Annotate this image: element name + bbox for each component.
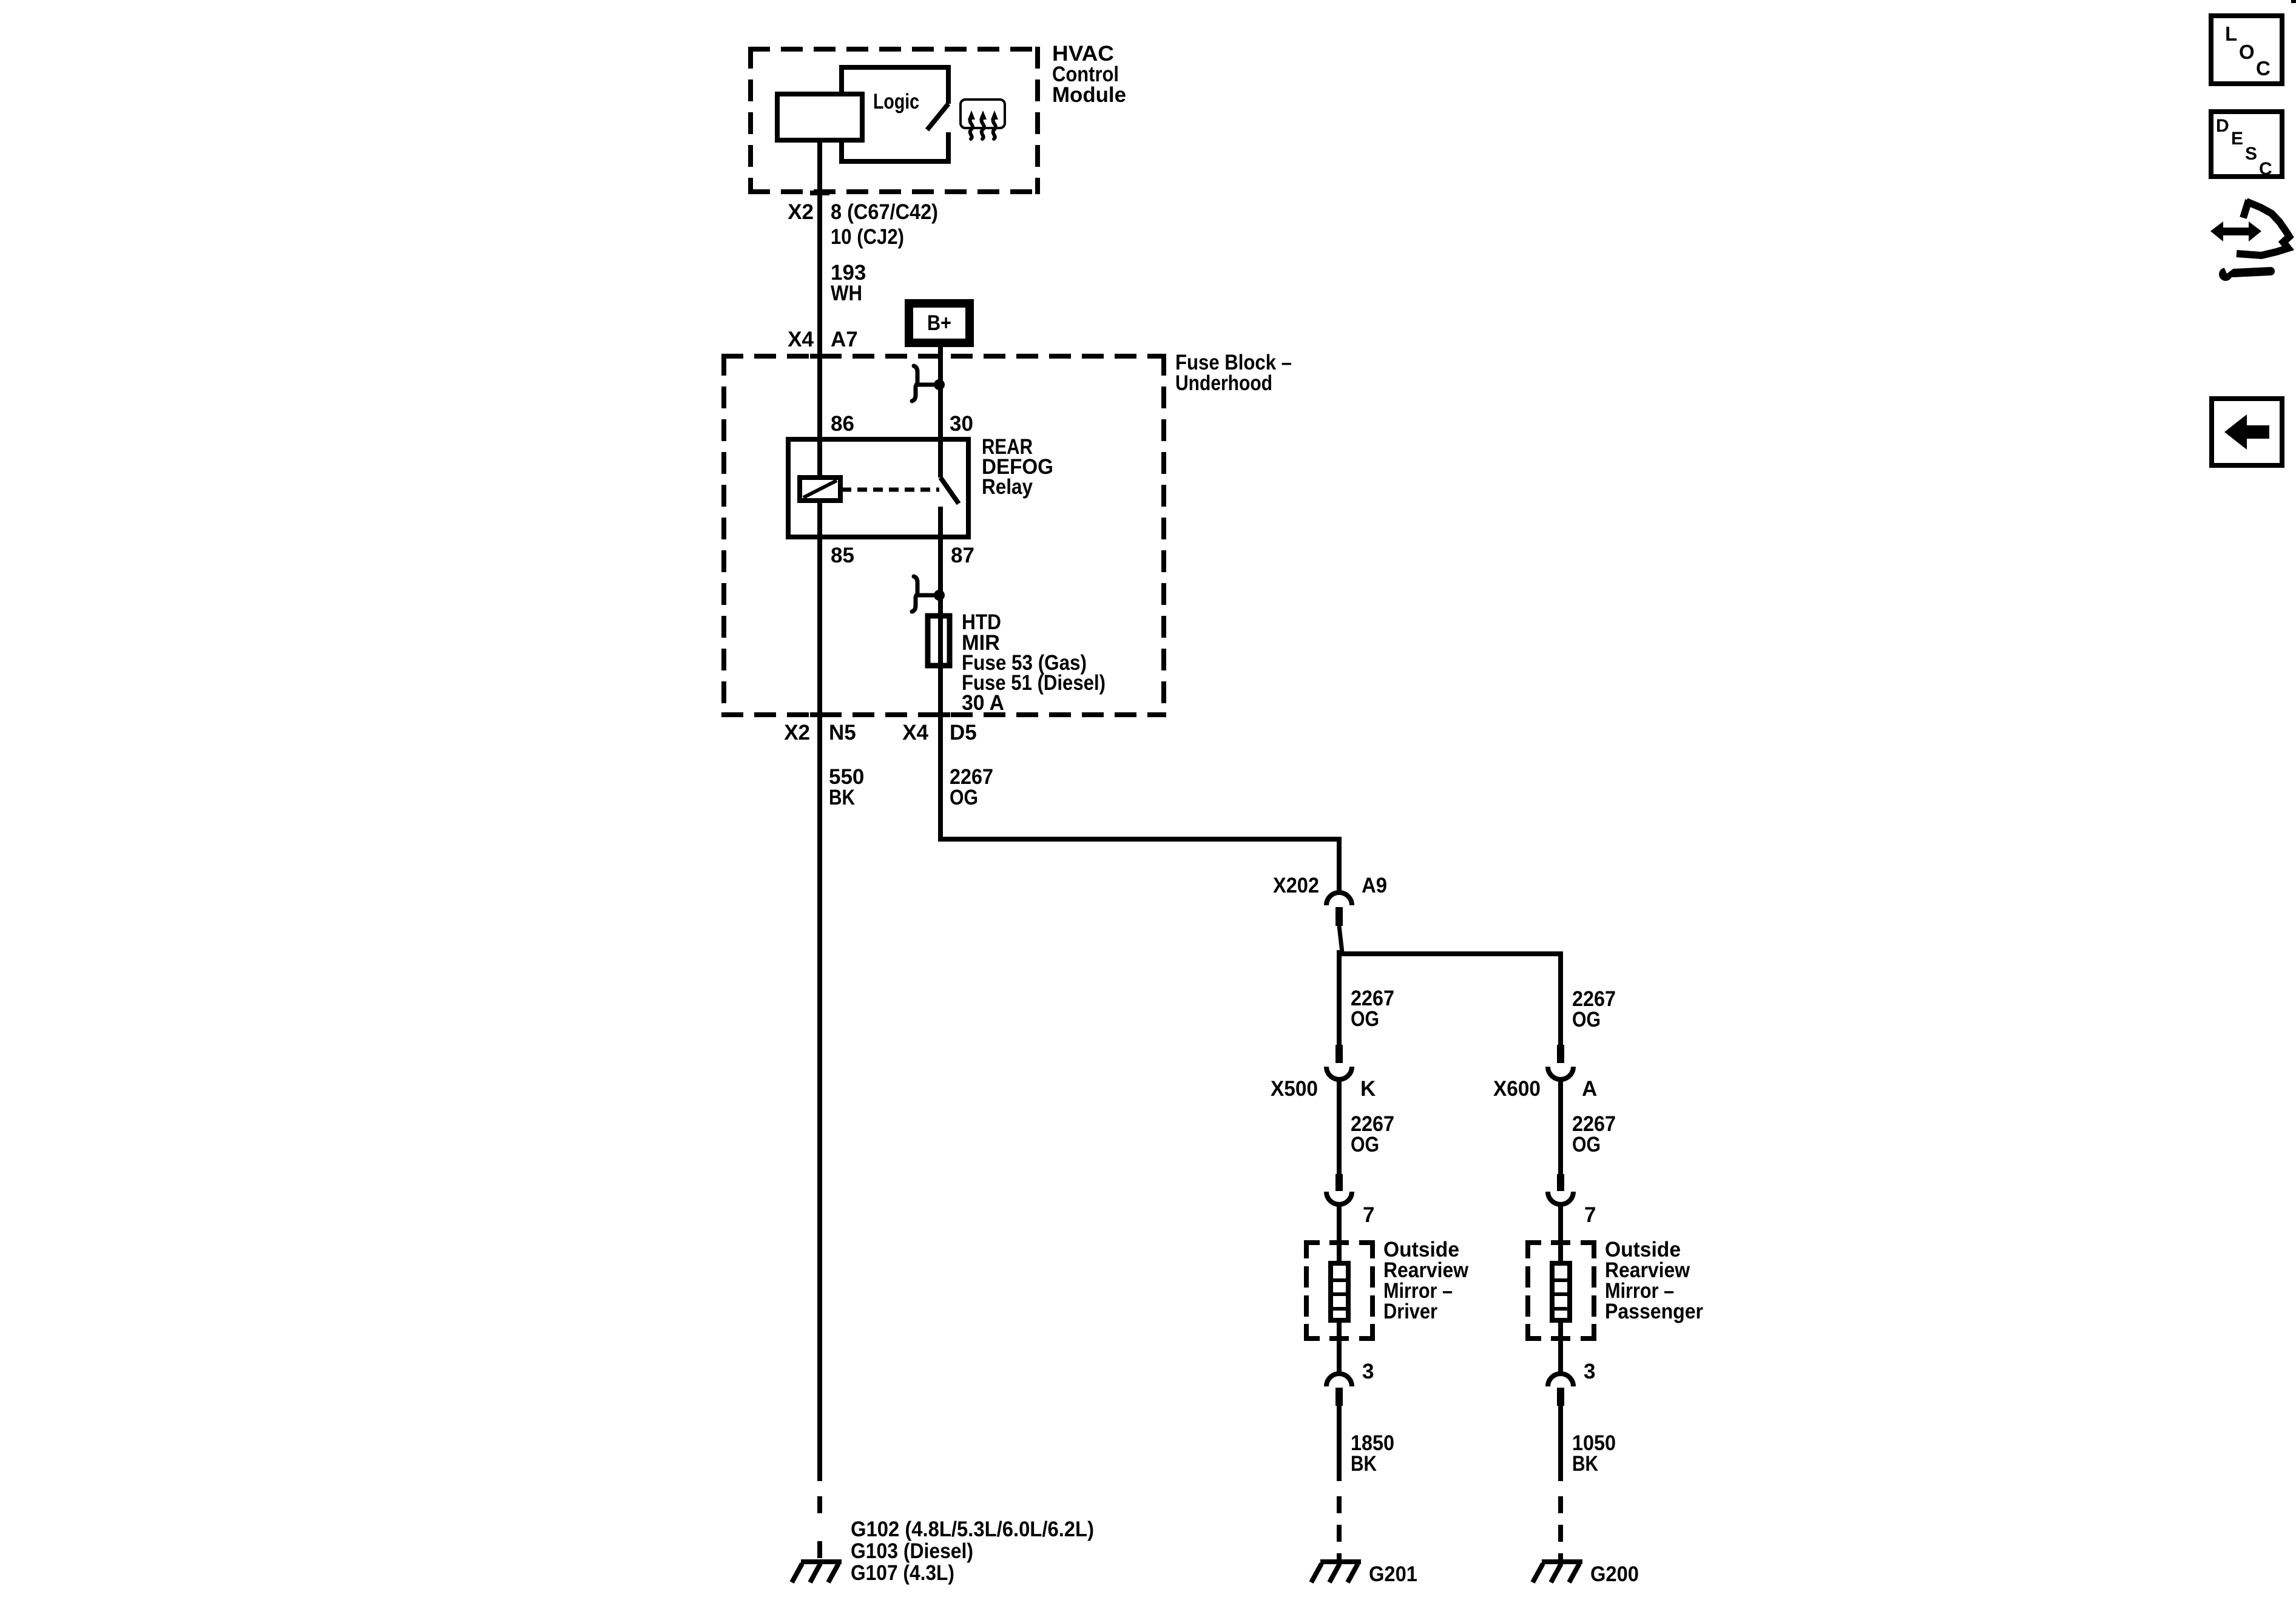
svg-text:C: C xyxy=(2259,159,2272,179)
svg-text:Underhood: Underhood xyxy=(1175,371,1272,395)
REAR DEFOG Relay box xyxy=(788,439,968,537)
ground G201 xyxy=(1311,1562,1361,1582)
wire label 193 WH xyxy=(831,261,866,305)
svg-text:D: D xyxy=(2216,116,2229,136)
svg-text:X500: X500 xyxy=(1271,1077,1318,1101)
svg-text:8 (C67/C42): 8 (C67/C42) xyxy=(831,200,938,224)
Fuse Block - Underhood dashed box xyxy=(721,354,1166,717)
wire passenger X600 to mirror xyxy=(1558,1079,1563,1174)
svg-text:A9: A9 xyxy=(1362,874,1387,897)
connector below driver mirror xyxy=(1326,1374,1352,1481)
tick at module boundary xyxy=(810,191,829,195)
svg-text:X600: X600 xyxy=(1493,1077,1541,1101)
relay coil xyxy=(800,478,840,501)
connector pin rect in module xyxy=(777,94,862,140)
svg-text:L: L xyxy=(2225,22,2237,45)
svg-text:BK: BK xyxy=(1351,1452,1377,1476)
tick at driver mirror bottom xyxy=(1329,1336,1349,1341)
fuse labels xyxy=(962,610,1106,715)
pin label X4 A7 xyxy=(788,328,858,351)
svg-text:G201: G201 xyxy=(1369,1562,1417,1586)
svg-text:OG: OG xyxy=(1351,1133,1379,1156)
ground labels G102 G103 G107 xyxy=(851,1517,1094,1585)
connector X600 A xyxy=(1493,1045,1597,1101)
svg-text:30 A: 30 A xyxy=(962,691,1004,715)
svg-text:WH: WH xyxy=(831,282,862,305)
svg-text:G103 (Diesel): G103 (Diesel) xyxy=(851,1539,973,1563)
svg-text:K: K xyxy=(1360,1077,1376,1101)
svg-text:A7: A7 xyxy=(831,328,858,351)
remove-install icon double arrow xyxy=(2210,221,2261,241)
connector X500 K xyxy=(1271,1045,1376,1101)
wire passenger mirror to connector xyxy=(1558,1320,1563,1374)
svg-text:X4: X4 xyxy=(902,721,928,744)
svg-text:Relay: Relay xyxy=(982,475,1033,499)
wire driver X500 to mirror xyxy=(1337,1079,1342,1174)
wire left main vertical xyxy=(817,140,822,1481)
page corner mark xyxy=(2291,0,2296,3)
connector below passenger mirror xyxy=(1548,1374,1573,1481)
svg-text:A: A xyxy=(1582,1077,1597,1101)
remove-install icon part outline xyxy=(2237,200,2289,255)
relay label xyxy=(982,435,1053,499)
logic box U1 xyxy=(842,67,948,161)
svg-text:3: 3 xyxy=(1362,1360,1374,1383)
bus tap hook at fuse xyxy=(912,576,937,612)
pin label X2 8 xyxy=(788,200,938,249)
DESC icon box xyxy=(2211,112,2282,179)
junction dot at fuse xyxy=(934,590,945,601)
Outside Rearview Mirror Driver dashed box xyxy=(1304,1240,1375,1341)
relay dashed link xyxy=(842,488,939,492)
svg-text:O: O xyxy=(2239,41,2255,63)
pin labels 85 87 xyxy=(831,544,974,567)
junction dot at 30 xyxy=(934,379,945,390)
wire labels 550 BK / 2267 OG xyxy=(829,765,993,809)
svg-text:7: 7 xyxy=(1363,1203,1374,1227)
svg-text:C: C xyxy=(2256,57,2271,79)
wire label 1050 BK xyxy=(1572,1431,1616,1476)
svg-text:X202: X202 xyxy=(1273,874,1319,897)
connector at passenger mirror pin 7 xyxy=(1548,1174,1596,1263)
svg-text:85: 85 xyxy=(831,544,854,567)
connector at driver mirror pin 7 xyxy=(1326,1174,1374,1263)
B+ power box xyxy=(905,299,974,347)
tick at passenger mirror top xyxy=(1551,1240,1570,1245)
svg-text:Driver: Driver xyxy=(1383,1300,1437,1323)
HVAC Control Module label xyxy=(1052,42,1126,107)
svg-text:OG: OG xyxy=(1351,1007,1379,1031)
svg-text:OG: OG xyxy=(1572,1133,1601,1156)
coil diagonal xyxy=(803,481,837,498)
pin labels 86 30 xyxy=(831,412,973,436)
svg-text:86: 86 xyxy=(831,412,854,436)
svg-text:D5: D5 xyxy=(950,721,977,744)
passenger mirror label xyxy=(1605,1238,1703,1323)
svg-text:OG: OG xyxy=(1572,1008,1601,1031)
wire split to passenger branch xyxy=(1340,954,1561,1045)
wire label 2267 OG passenger lower xyxy=(1572,1112,1616,1156)
svg-text:10 (CJ2): 10 (CJ2) xyxy=(831,225,904,249)
Fuse Block label xyxy=(1175,351,1292,395)
svg-text:30: 30 xyxy=(950,412,973,436)
wire label 2267 OG driver xyxy=(1351,987,1394,1031)
svg-text:Passenger: Passenger xyxy=(1605,1300,1703,1323)
svg-text:3: 3 xyxy=(1584,1360,1595,1383)
svg-text:X2: X2 xyxy=(788,200,814,224)
pin labels X2 N5 X4 D5 xyxy=(784,721,977,744)
svg-text:G107 (4.3L): G107 (4.3L) xyxy=(851,1561,954,1585)
dashed wire to G201 xyxy=(1337,1496,1342,1561)
Outside Rearview Mirror Passenger dashed box xyxy=(1525,1240,1596,1341)
relay switch blade xyxy=(940,478,959,504)
ground G200 xyxy=(1533,1562,1582,1582)
wire driver branch down xyxy=(1337,950,1342,1045)
svg-text:OG: OG xyxy=(950,786,978,809)
svg-text:E: E xyxy=(2231,129,2243,149)
svg-text:Logic: Logic xyxy=(873,90,919,113)
wire from B+ to relay 30 xyxy=(938,347,943,478)
svg-text:G200: G200 xyxy=(1590,1562,1639,1586)
svg-text:N5: N5 xyxy=(829,721,856,744)
fuse HTD MIR xyxy=(928,616,950,666)
driver mirror label xyxy=(1383,1238,1469,1323)
back arrow icon box xyxy=(2212,399,2282,465)
svg-text:B+: B+ xyxy=(927,311,951,335)
tick at passenger mirror bottom xyxy=(1551,1336,1570,1341)
remove-install icon wrench xyxy=(2219,263,2271,281)
wire label 2267 OG driver lower xyxy=(1351,1112,1394,1156)
svg-text:BK: BK xyxy=(1572,1452,1598,1476)
switch blade inside module xyxy=(927,104,948,130)
wire driver mirror to connector xyxy=(1337,1320,1342,1374)
connector X202 A9 xyxy=(1273,874,1387,953)
heater element passenger xyxy=(1552,1263,1570,1320)
ground G102 xyxy=(792,1562,842,1582)
tick at driver mirror top xyxy=(1329,1240,1349,1245)
bus tap hook at relay 30 xyxy=(912,366,937,401)
dashed wire to G200 xyxy=(1558,1496,1563,1561)
svg-text:S: S xyxy=(2245,144,2257,164)
svg-text:87: 87 xyxy=(951,544,974,567)
svg-text:X4: X4 xyxy=(788,328,814,351)
svg-text:Module: Module xyxy=(1052,83,1126,107)
HVAC Control Module dashed box xyxy=(748,47,1040,194)
dashed wire to G102 xyxy=(817,1496,822,1559)
svg-text:BK: BK xyxy=(829,786,855,809)
heated grid icon xyxy=(961,100,1005,139)
svg-text:G102 (4.8L/5.3L/6.0L/6.2L): G102 (4.8L/5.3L/6.0L/6.2L) xyxy=(851,1517,1094,1541)
LOC icon box xyxy=(2211,16,2282,84)
svg-text:7: 7 xyxy=(1584,1203,1596,1227)
tick at fuse block top (X4 A7) xyxy=(810,354,829,359)
ticks at fuse block bottom xyxy=(810,712,829,717)
wire label 1850 BK xyxy=(1351,1431,1394,1476)
relay 87 stub and wire to corner xyxy=(940,507,1339,892)
wire label 2267 OG passenger xyxy=(1572,987,1616,1031)
svg-text:X2: X2 xyxy=(784,721,810,744)
heater element driver xyxy=(1331,1263,1348,1320)
